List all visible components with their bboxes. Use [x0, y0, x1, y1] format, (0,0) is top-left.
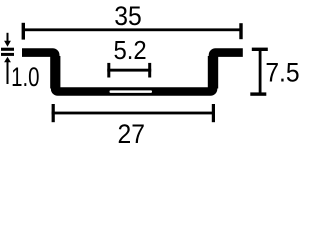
dimension 1.0: top extension bar	[1, 48, 14, 51]
dimension 35: right tick	[239, 23, 242, 39]
dimension 27: line	[52, 112, 215, 115]
svg-text:35: 35	[114, 1, 142, 31]
dimension 5.2: line	[107, 69, 151, 72]
dimension 7.5: bottom tick	[250, 92, 266, 95]
slot (white) in bottom of profile	[110, 90, 153, 93]
dimension 27: left tick	[52, 104, 55, 122]
dimension 5.2: right tick	[148, 63, 151, 78]
dimension 35: left tick	[22, 23, 25, 40]
right web (full thickness)	[208, 56, 218, 89]
dimension 1.0: down arrow	[7, 33, 9, 42]
dimension 1.0: bottom extension bar	[1, 53, 14, 56]
left web (full thickness)	[50, 56, 60, 89]
dimension 27: right tick	[212, 104, 215, 122]
svg-text:1.0: 1.0	[11, 62, 39, 92]
svg-text:7.5: 7.5	[265, 58, 299, 88]
dimension 35: line	[22, 28, 243, 31]
dimension 7.5: top tick	[252, 48, 268, 51]
DIN rail hat profile (solid section)	[22, 53, 243, 92]
dimension 1.0: up arrow	[4, 57, 11, 63]
dimension 7.5: vertical line	[259, 48, 262, 95]
svg-text:27: 27	[118, 119, 146, 149]
dimension 5.2: left tick	[107, 63, 110, 78]
svg-text:5.2: 5.2	[114, 37, 147, 65]
